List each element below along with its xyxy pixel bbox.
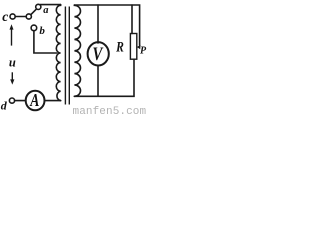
wire d to ammeter [15, 100, 26, 102]
svg-text:A: A [29, 92, 39, 111]
svg-text:c: c [2, 9, 8, 24]
transformer core [65, 7, 69, 105]
switch contact a [36, 4, 41, 9]
svg-text:manfen5.com: manfen5.com [73, 106, 147, 116]
wiper arrow P [137, 45, 141, 49]
primary winding W1 [56, 5, 60, 101]
svg-text:V: V [93, 43, 104, 64]
wire contact a to primary top [40, 4, 60, 6]
switch arm [31, 10, 36, 15]
wire c to switch pivot [15, 16, 26, 18]
switch pivot circle [26, 14, 31, 19]
wire voltmeter bottom [97, 65, 99, 96]
svg-text:u: u [9, 56, 16, 70]
svg-text:a: a [43, 5, 48, 16]
terminal c [10, 14, 15, 19]
svg-text:P: P [140, 45, 147, 56]
switch contact b [31, 25, 37, 31]
wire ammeter to primary bottom [45, 100, 60, 102]
wire tap b to primary winding [34, 31, 57, 53]
wire voltmeter top [97, 5, 99, 43]
svg-text:d: d [1, 99, 8, 113]
top wire secondary to rheostat branch [74, 5, 139, 45]
voltmeter V [88, 42, 109, 65]
svg-text:b: b [39, 25, 45, 37]
wire top to rheostat R [131, 5, 133, 34]
rheostat R box [130, 34, 136, 60]
terminal d [9, 98, 14, 103]
voltage arrow up [11, 29, 13, 46]
voltage arrow down [11, 72, 13, 80]
secondary winding W2 [74, 5, 80, 96]
bottom wire secondary to rheostat [74, 59, 134, 96]
svg-text:R: R [115, 38, 124, 55]
ammeter A [26, 91, 45, 111]
